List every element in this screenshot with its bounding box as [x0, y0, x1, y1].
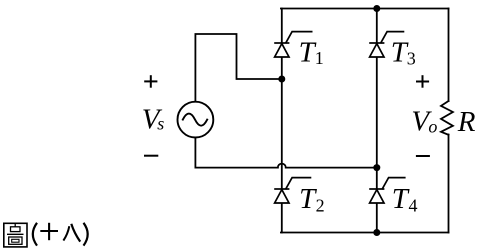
svg-text:T: T	[299, 183, 317, 215]
caption: opening parenthesis	[33, 223, 37, 246]
resistor R zigzag	[441, 101, 453, 135]
wire: source top lead up from source	[195, 34, 281, 102]
svg-text:1: 1	[315, 48, 324, 68]
thyristor T4	[369, 178, 405, 203]
node: junction dot source top / left leg	[278, 76, 285, 83]
wire: right bridge leg vertical	[376, 9, 378, 233]
AC source sine wave	[183, 114, 207, 126]
wire: right rail lower segment from resistor to bottom rail	[448, 135, 450, 233]
wire: source bottom lead right part to node B	[286, 167, 377, 169]
label: output polarity plus	[416, 75, 429, 88]
wire: crossover hop over left leg	[278, 164, 286, 168]
wire: bottom rail	[281, 232, 449, 234]
node: junction dot source bottom / right leg	[373, 164, 380, 171]
label: source polarity minus	[144, 155, 158, 157]
svg-text:s: s	[157, 114, 164, 134]
label: source polarity plus	[144, 75, 157, 88]
caption: closing parenthesis	[84, 223, 88, 246]
svg-text:2: 2	[316, 195, 325, 215]
thyristor T1	[274, 32, 312, 57]
wire: right rail upper segment down to resistor	[448, 9, 450, 102]
svg-text:4: 4	[409, 195, 418, 215]
thyristor T2	[274, 178, 311, 203]
caption: glyph ten 十	[40, 223, 58, 240]
label: output polarity minus	[416, 155, 430, 157]
thyristor T3	[369, 32, 404, 57]
svg-text:3: 3	[407, 48, 416, 68]
svg-text:o: o	[428, 116, 437, 136]
caption: figure number glyph 圖	[4, 223, 27, 247]
wire: source bottom lead left part	[195, 138, 277, 168]
svg-text:T: T	[392, 183, 410, 215]
node: junction dot top rail / right leg	[373, 5, 380, 12]
wire: top rail from left leg to right rail	[281, 8, 449, 10]
wire: left bridge leg vertical	[281, 9, 283, 233]
node: junction dot bottom rail / right leg	[373, 229, 380, 236]
AC source Vs circle	[178, 102, 214, 138]
svg-text:R: R	[457, 106, 476, 138]
caption: glyph eight 八	[63, 224, 80, 242]
